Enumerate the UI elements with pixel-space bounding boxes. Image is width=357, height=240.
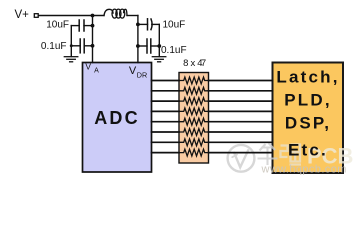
logic block text — [276, 68, 339, 160]
pin label VA — [85, 61, 99, 74]
capacitor C1 left lead — [71, 25, 79, 27]
wire right ground rail — [158, 24, 160, 56]
capacitor C4 0.1uF lead from VDR rail — [138, 45, 147, 47]
node V+ label — [15, 9, 30, 21]
capacitor C1 10uF lead to rail — [84, 25, 93, 27]
svg-text:Latch,: Latch, — [276, 68, 339, 87]
wire left ground rail — [70, 26, 72, 57]
svg-text:DR: DR — [137, 70, 147, 79]
svg-text:PLD,: PLD, — [284, 91, 332, 110]
svg-text:V: V — [85, 61, 91, 71]
resistor R2 — [180, 87, 209, 94]
wire top rail left segment — [39, 15, 104, 17]
watermark logo circle — [228, 145, 255, 172]
C3 value label 10uF — [163, 19, 186, 30]
junction dot right rail — [157, 44, 161, 48]
resistor R5 — [180, 118, 209, 125]
ground GND1 — [64, 57, 78, 62]
watermark text PCB — [307, 144, 353, 169]
svg-text:www.hqpcb.com: www.hqpcb.com — [261, 164, 347, 176]
svg-text:10uF: 10uF — [163, 19, 186, 30]
capacitor C3 10uF lead from VDR rail — [138, 23, 148, 25]
capacitor C1 10uF plates — [83, 20, 85, 31]
resistor R8 — [180, 149, 209, 156]
ground GND2 — [152, 57, 166, 62]
resistor R3 — [180, 98, 209, 105]
capacitor C3 right lead — [152, 23, 160, 25]
watermark CJK glyph 2 — [281, 145, 302, 165]
logic block body (Latch/PLD/DSP) — [273, 63, 344, 174]
bus wires D0-D7 (left and right of resistor pack) — [152, 81, 273, 153]
junction dot C4 — [136, 44, 140, 48]
C1 value label 10uF — [46, 19, 69, 30]
pin label VDR — [129, 65, 147, 79]
resistor R7 — [180, 139, 209, 146]
resistor R6 — [180, 129, 209, 136]
resistor R4 — [180, 108, 209, 115]
capacitor C4 right lead — [151, 45, 160, 47]
svg-text:DSP,: DSP, — [285, 114, 331, 133]
inductor L1 ferrite bead — [104, 9, 127, 18]
wire VDR pin vertical — [137, 16, 139, 63]
svg-text:V+: V+ — [15, 9, 30, 21]
resistor pack RN1 body — [179, 73, 209, 164]
junction dot left rail — [70, 44, 73, 47]
svg-text:0.1uF: 0.1uF — [41, 41, 67, 52]
svg-text:A: A — [94, 68, 99, 75]
C2 value label 0.1uF — [41, 41, 67, 52]
svg-text:ADC: ADC — [94, 108, 140, 128]
capacitor C2 left lead — [71, 45, 80, 47]
watermark CJK glyph 1 — [258, 143, 278, 165]
svg-text:8 x 47: 8 x 47 — [183, 58, 206, 69]
capacitor C4 0.1uF plates — [146, 39, 148, 53]
svg-text:V: V — [129, 65, 137, 77]
resistor R1 — [180, 77, 209, 84]
resistor pack label 8 x 47 — [183, 58, 206, 69]
wire VA pin vertical — [92, 16, 94, 63]
wire top rail right segment — [127, 15, 138, 17]
watermark url text — [261, 164, 347, 176]
capacitor C2 0.1uF plates — [83, 39, 85, 53]
svg-text:Etc.: Etc. — [288, 141, 328, 160]
ADC block title — [94, 108, 140, 128]
capacitor C3 10uF plates — [147, 19, 149, 30]
op block ADC U1 body — [83, 63, 152, 173]
capacitor C2 0.1uF lead to rail — [84, 45, 92, 47]
junction dot at VA branch — [91, 14, 95, 18]
junction dot C1 — [91, 24, 95, 28]
C4 value label 0.1uF — [161, 45, 187, 56]
svg-text:0.1uF: 0.1uF — [161, 45, 187, 56]
terminal (input pin circle) — [34, 14, 38, 18]
junction dot C3 — [136, 23, 140, 27]
junction dot C2 — [91, 44, 95, 48]
svg-text:10uF: 10uF — [46, 19, 69, 30]
